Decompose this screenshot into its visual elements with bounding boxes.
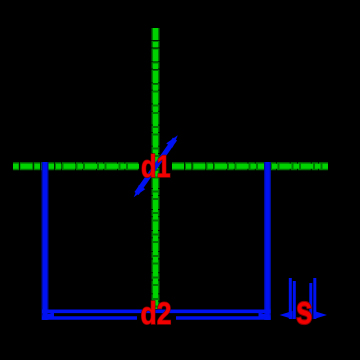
dimension line d2 xyxy=(42,316,137,320)
svg-text:d1: d1 xyxy=(141,148,171,184)
arrow d2 left xyxy=(42,312,55,319)
wire: right wall of section xyxy=(264,162,271,320)
s extension line right pair xyxy=(309,283,312,319)
arrow d1 upper xyxy=(166,135,178,147)
dimension d1 diagonal line xyxy=(137,139,176,194)
arrow s left xyxy=(280,311,293,319)
wire: left wall of section xyxy=(42,162,49,320)
horizontal centerline xyxy=(13,162,328,170)
wire: bottom edge of section xyxy=(42,309,271,313)
arrow d1 lower xyxy=(134,185,146,197)
svg-text:d2: d2 xyxy=(141,295,172,331)
arrow d2 right xyxy=(259,312,272,319)
vertical centerline xyxy=(152,28,160,309)
s extension line left pair xyxy=(289,278,292,319)
arrow s right xyxy=(314,311,327,319)
svg-text:s: s xyxy=(296,289,313,333)
